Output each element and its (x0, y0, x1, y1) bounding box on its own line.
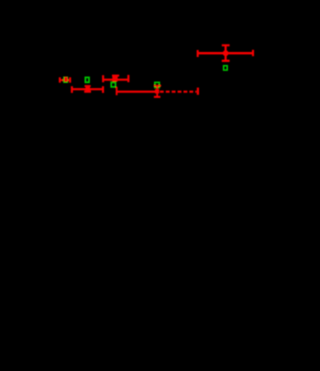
data point P5 marker (223, 50, 229, 56)
green square G1 (64, 77, 68, 82)
data point P2 marker (86, 87, 91, 92)
green square G4 (155, 82, 160, 87)
data point P2 vertical error bar caps (84, 86, 91, 92)
data point P5 horizontal error bar (198, 50, 253, 57)
data point P3 horizontal error bar (103, 75, 128, 82)
data point P4 horizontal error bar dashed right part (160, 91, 197, 93)
green square G3 (111, 83, 115, 87)
data point P4 right cap (197, 88, 199, 95)
data point P5 vertical error bar (222, 45, 230, 61)
data point P1 horizontal error bar (60, 77, 70, 82)
data point P4 marker (155, 89, 159, 93)
data point P4 horizontal error bar solid left part (117, 87, 157, 95)
green square G2 (85, 77, 89, 82)
data point P4 vertical error bar (154, 86, 162, 97)
green square G5 (224, 66, 228, 70)
data point P1 marker (64, 77, 67, 82)
data point P3 marker (112, 76, 117, 81)
data point P2 horizontal error bar (72, 86, 103, 93)
data point P3 vertical error bar top cap (112, 75, 119, 77)
